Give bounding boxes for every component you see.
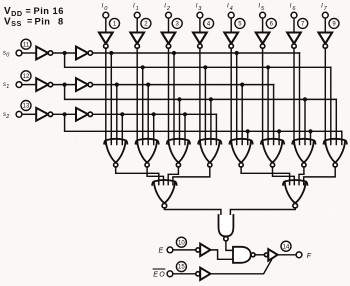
svg-text:14: 14	[283, 244, 290, 250]
svg-text:E: E	[159, 248, 164, 255]
wire combining gate output to AND gate upper input	[226, 241, 233, 251]
wire to output terminal F	[278, 254, 297, 256]
pin number 5	[235, 18, 245, 28]
wire gate 5 input 3 from select line	[241, 85, 243, 145]
wire S1 terminal to first inverter	[22, 84, 36, 86]
wire EObar to 3-state control of output inverter	[210, 260, 271, 274]
wire S2bar drop and line	[65, 116, 342, 131]
wire S2bar node between inverters	[53, 113, 76, 115]
inverter for I6	[287, 33, 301, 49]
svg-text:Pin: Pin	[35, 16, 51, 26]
output terminal F	[296, 252, 312, 260]
junction dot gate 3 input 3	[177, 97, 181, 101]
svg-text:VSS: VSS	[4, 16, 22, 28]
NAND gate output (2-input, D-shape)	[233, 247, 255, 263]
wire I1 inverted data line down to gate 2	[136, 48, 138, 144]
wire gate 4 input 4 from select line	[215, 114, 217, 144]
pin number 4	[204, 18, 214, 28]
inverter for I3	[193, 33, 207, 49]
NAND gate 5 (4-input, I4)	[230, 139, 253, 167]
wire gate 8 input 2 from select line	[330, 67, 332, 144]
NAND gate level-2 left (4-input)	[152, 180, 176, 208]
wire gate 1 input 4 from select line	[121, 114, 123, 144]
wire gate 5 output to level-2 gate	[241, 167, 290, 185]
wire gate 3 input 3 from select line	[179, 99, 181, 144]
NAND gate combining (2-input)	[219, 215, 234, 241]
pin number 3	[172, 18, 182, 28]
junction dot gate 2 input 3	[146, 83, 150, 87]
wire NAND output to 3-state inverter	[255, 254, 264, 256]
input terminal E pin 10	[159, 247, 173, 255]
junction dot gate 4 input 2	[203, 65, 207, 69]
wire gate 7 input 3 from select line	[304, 99, 306, 144]
wire gate 1 input 3 from select line	[116, 85, 118, 145]
wire I0 inverted data line down to gate 1	[105, 48, 107, 144]
wire I7 terminal to inverter	[324, 18, 326, 32]
junction dot gate 6 input 4	[277, 129, 281, 133]
inverter S0 first	[36, 47, 53, 60]
junction dot gate 5 input 4	[246, 129, 250, 133]
wire level-2 left output to combining gate	[164, 208, 221, 217]
junction dot gate 1 input 2	[109, 51, 113, 55]
svg-text:1: 1	[136, 6, 139, 12]
select input terminal S0 pin 11	[3, 50, 22, 59]
NAND gate 3 (4-input, I2)	[167, 139, 190, 167]
pin number 13	[21, 101, 31, 111]
junction dot S1bar	[63, 83, 67, 87]
inverter S1 second	[76, 78, 93, 91]
junction dot S2bar	[63, 112, 67, 116]
pin number 14	[281, 241, 291, 251]
inverter S2 first	[36, 108, 53, 121]
junction dot gate 2 input 4	[152, 112, 156, 116]
input terminal I0 pin 1	[102, 4, 109, 19]
wire S0 buffered line	[93, 52, 300, 54]
wire I1 terminal to inverter	[136, 18, 138, 32]
wire I2 terminal to inverter	[168, 18, 170, 32]
NAND gate 7 (4-input, I6)	[292, 139, 315, 167]
input terminal EObar pin 15	[153, 269, 173, 279]
svg-text:8: 8	[58, 16, 64, 26]
input terminal I5 pin 6	[258, 4, 265, 19]
wire S0 terminal to first inverter	[22, 52, 36, 54]
input terminal I7 pin 9	[321, 4, 328, 19]
inverter for I0	[99, 33, 113, 49]
svg-text:1: 1	[6, 84, 9, 90]
wire E inverter to AND gate lower input	[210, 250, 233, 259]
svg-text:Pin 16: Pin 16	[34, 6, 64, 16]
svg-text:12: 12	[23, 74, 30, 80]
wire S0bar node between inverters	[53, 52, 76, 54]
wire gate 3 output to level-2 gate	[168, 167, 178, 185]
svg-text:11: 11	[23, 42, 30, 48]
power pin note VDD	[4, 6, 64, 28]
wire gate 1 input 2 from select line	[110, 53, 112, 145]
input terminal I1 pin 2	[133, 4, 140, 19]
wire gate 2 output to level-2 gate	[147, 167, 163, 185]
wire gate 3 input 4 from select line	[184, 114, 186, 144]
NAND gate 4 (4-input, I3)	[198, 139, 221, 167]
wire S1bar drop and line	[65, 87, 337, 100]
junction dot gate 4 input 3	[209, 97, 213, 101]
wire E terminal to inverter	[173, 249, 196, 251]
wire gate 7 output to level-2 gate	[299, 167, 304, 185]
wire I3 inverted data line down to gate 4	[199, 48, 201, 144]
wire gate 6 input 3 from select line	[273, 85, 275, 145]
wire S2 terminal to first inverter	[22, 113, 36, 115]
pin number 10	[176, 237, 186, 247]
inverter S0 second	[76, 47, 93, 60]
wire gate 5 input 2 from select line	[236, 53, 238, 145]
wire gate 7 input 4 from select line	[310, 131, 312, 144]
junction dot gate 3 input 2	[172, 51, 176, 55]
select input terminal S2 pin 13	[3, 111, 22, 120]
wire gate 5 input 4 from select line	[247, 131, 249, 144]
inverter for I1	[130, 33, 144, 49]
inverter EObar (input bubble)	[196, 268, 211, 280]
wire I2 inverted data line down to gate 3	[168, 48, 170, 144]
inverter for I2	[162, 33, 176, 49]
pin number 7	[298, 18, 308, 28]
junction dot gate 1 input 4	[120, 112, 124, 116]
wire gate 4 output to level-2 gate	[173, 167, 210, 185]
wire gate 4 input 3 from select line	[210, 99, 212, 144]
wire gate 6 output to level-2 gate	[273, 167, 295, 185]
wire gate 8 input 3 from select line	[335, 99, 337, 144]
wire gate 8 output to level-2 gate	[304, 167, 336, 185]
NAND gate 1 (4-input, I0)	[104, 139, 127, 167]
junction dot gate 3 input 4	[183, 112, 187, 116]
wire gate 6 input 4 from select line	[278, 131, 280, 144]
svg-text:F: F	[307, 253, 312, 260]
junction dot gate 7 input 3	[303, 97, 307, 101]
input terminal I2 pin 3	[164, 4, 171, 19]
pin number 1	[110, 18, 120, 28]
svg-text:E: E	[153, 272, 158, 279]
wire I3 terminal to inverter	[199, 18, 201, 32]
inverter S1 first	[36, 78, 53, 91]
wire S1 buffered line	[93, 84, 274, 86]
NAND gate 2 (4-input, I1)	[136, 139, 159, 167]
pin number 2	[141, 18, 151, 28]
inverter for I4	[224, 33, 238, 49]
junction dot gate 5 input 3	[240, 83, 244, 87]
junction dot gate 1 input 3	[115, 83, 119, 87]
input terminal I3 pin 4	[196, 4, 203, 19]
input terminal I6 pin 7	[290, 4, 297, 19]
3-state output inverter (input bubble)	[264, 249, 277, 261]
inverter for I5	[256, 33, 270, 49]
wire I6 inverted data line down to gate 7	[293, 48, 295, 144]
inverter S2 second	[76, 108, 93, 121]
wire gate 7 input 2 from select line	[299, 53, 301, 145]
wire gate 8 input 4 from select line	[341, 131, 343, 144]
wire gate 1 output to level-2 gate	[116, 167, 159, 185]
wire I4 inverted data line down to gate 5	[230, 48, 232, 144]
NAND gate 6 (4-input, I5)	[261, 139, 284, 167]
wire S0bar drop and line	[65, 55, 331, 67]
svg-text:4: 4	[230, 6, 233, 12]
wire I6 terminal to inverter	[293, 18, 295, 32]
svg-text:=: =	[26, 6, 32, 16]
wire I7 inverted data line down to gate 8	[324, 48, 326, 144]
wire gate 2 input 4 from select line	[153, 114, 155, 144]
wire I5 terminal to inverter	[262, 18, 264, 32]
NAND gate 8 (4-input, I7)	[324, 139, 347, 167]
wire I0 terminal to inverter	[105, 18, 107, 32]
junction dot S0bar	[63, 51, 67, 55]
junction dot gate 7 input 4	[308, 129, 312, 133]
wire level-2 right output to combining gate	[230, 208, 295, 217]
inverter E (input bubble)	[196, 244, 211, 256]
NAND gate level-2 right (4-input)	[283, 180, 307, 208]
svg-text:15: 15	[178, 265, 185, 271]
svg-text:0: 0	[6, 53, 9, 59]
pin number 9	[329, 18, 339, 28]
input terminal I4 pin 5	[227, 4, 234, 19]
wire I4 terminal to inverter	[230, 18, 232, 32]
svg-text:2: 2	[5, 114, 9, 120]
pin number 12	[21, 71, 31, 81]
wire gate 6 input 2 from select line	[267, 67, 269, 144]
svg-text:=: =	[27, 16, 33, 26]
wire gate 2 input 3 from select line	[147, 85, 149, 145]
inverter for I7	[319, 33, 333, 49]
wire S2 buffered line	[93, 113, 216, 115]
pin number 15	[176, 262, 186, 272]
svg-text:10: 10	[178, 240, 185, 246]
wire I5 inverted data line down to gate 6	[262, 48, 264, 144]
wire gate 4 input 2 from select line	[204, 67, 206, 144]
pin number 6	[266, 18, 276, 28]
wire gate 3 input 2 from select line	[173, 53, 175, 145]
wire gate 2 input 2 from select line	[142, 67, 144, 144]
select input terminal S1 pin 12	[3, 82, 22, 91]
wire EObar terminal to inverter	[173, 273, 196, 275]
junction dot gate 2 input 2	[141, 65, 145, 69]
junction dot gate 5 input 2	[235, 51, 239, 55]
junction dot gate 6 input 2	[266, 65, 270, 69]
pin number 11	[21, 39, 31, 49]
svg-text:O: O	[159, 272, 165, 279]
wire S1bar node between inverters	[53, 84, 76, 86]
svg-text:13: 13	[23, 104, 30, 110]
